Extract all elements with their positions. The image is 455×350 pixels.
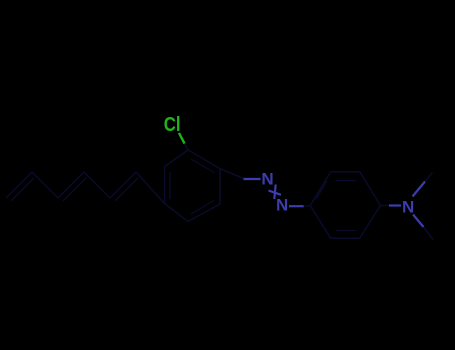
bond left ring to azo N1, blue half (244, 178, 261, 180)
chain double bond C1=C2 inner line (11, 178, 34, 201)
left benzene ring outline (165, 150, 221, 222)
chain bond C3-C4 (58, 172, 84, 198)
chain double bond C5=C6 inner line (115, 178, 138, 201)
azo N1=N2 crossed double bond line a (274, 185, 275, 200)
right ring double bond left inner line (316, 181, 327, 199)
N-CH3 upper bond blue half (413, 182, 426, 197)
chain bond C4-C5 (84, 172, 110, 198)
chain bond C2-C3 (32, 172, 58, 198)
chain bond C5-C6 (110, 172, 136, 198)
N-CH3 upper bond dark half (425, 173, 433, 182)
bond azo N2 to right ring, blue half (289, 205, 304, 207)
svg-text:Cl: Cl (164, 113, 181, 136)
left ring double bond bottom inner line (191, 201, 214, 215)
chain double bond C3=C4 inner line (63, 178, 86, 201)
N-CH3 lower bond blue half (413, 215, 424, 228)
svg-text:N: N (276, 196, 288, 215)
C-Cl bond green half (179, 133, 185, 144)
bond azo N2 to right ring, dark half (304, 205, 311, 208)
bond right ring to amine N, blue half (389, 204, 401, 206)
right benzene ring outline (310, 172, 380, 238)
N-CH3 lower bond dark half (424, 227, 434, 240)
svg-text:N: N (402, 197, 414, 216)
bond left ring to azo N1, dark half (220, 169, 244, 179)
left ring double bond left inner line (169, 172, 171, 199)
hexatrienyl chain: bond C1-C2 (6, 172, 32, 198)
chain bond C6 to left ring (136, 172, 165, 204)
C-Cl bond dark half (185, 144, 189, 151)
right ring double bond top inner line (336, 180, 357, 182)
bond right ring to amine N, dark half (380, 205, 389, 207)
right ring double bond bottom inner line (336, 230, 357, 232)
svg-text:N: N (261, 169, 273, 188)
azo N1=N2 crossed double bond line b (269, 191, 282, 195)
left ring double bond top-right inner line (191, 159, 215, 173)
